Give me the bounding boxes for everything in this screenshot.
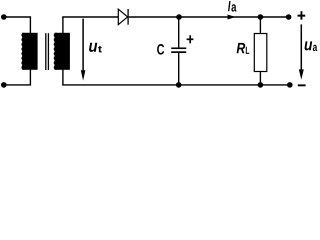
wire input top [4,17,31,33]
label C [157,44,164,55]
transformer T1 core [46,33,49,70]
voltage arrow u_a [299,24,304,79]
capacitor C plates [171,48,186,52]
wire secondary top lead [62,17,64,34]
voltage arrow u_t [81,19,86,81]
wire top rail to diode [62,16,118,18]
wire input bottom [4,70,31,85]
transformer T1 primary winding [21,33,37,70]
label I_a [228,1,236,12]
plus polarity mark output [298,11,306,20]
label u_t [89,43,102,53]
wire bottom rail [62,84,291,86]
terminal dot output bottom [287,82,293,88]
wire top rail diode to output [129,16,291,18]
node dot resistor top [258,14,264,20]
wire capacitor bottom lead [178,53,180,85]
wire secondary bottom lead [62,70,64,85]
resistor RL [254,34,266,72]
current arrowhead I_a [228,15,236,20]
label u_a [305,41,318,51]
node dot capacitor bottom [176,82,182,88]
node dot resistor bottom [258,82,264,88]
node dot capacitor top [176,14,182,20]
terminal dot input bottom [1,82,7,88]
label R_L [237,43,250,54]
minus polarity mark output [298,84,306,86]
wire resistor bottom lead [259,72,261,85]
diode D1 [118,9,128,25]
plus polarity mark capacitor [187,35,194,43]
terminal dot output top [286,14,292,20]
wire capacitor top lead [178,17,180,48]
transformer T1 secondary winding [54,33,70,70]
terminal dot input top [1,14,7,20]
wire resistor top lead [259,17,261,34]
